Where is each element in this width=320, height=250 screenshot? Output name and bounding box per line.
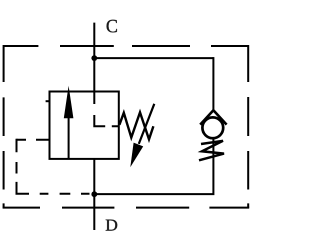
adjustment arrow shaft (139, 104, 155, 144)
pilot dashed line inside valve (from top port to spring side) (94, 92, 119, 126)
wire below valve to bottom node (93, 159, 95, 194)
enclosure dashed boundary top (3, 45, 248, 47)
adjustable spring zigzag (119, 112, 153, 139)
check valve ball (202, 117, 223, 138)
enclosure dashed boundary left (3, 45, 5, 208)
adjustment arrow head (130, 143, 143, 168)
pilot dashed line bottom branch (16, 193, 90, 195)
enclosure dashed boundary right (247, 45, 249, 208)
check valve spring (199, 141, 224, 161)
node junction dot bottom (91, 191, 97, 197)
port D label (106, 220, 118, 231)
wire port D stub (93, 194, 95, 230)
check valve upper wire (212, 57, 214, 111)
flow arrow inside valve (64, 86, 74, 159)
pilot dashed line left branch horizontal (17, 139, 50, 141)
port C label (107, 20, 117, 33)
check valve lower wire to bottom node (94, 138, 213, 194)
enclosure dashed boundary bottom (3, 207, 250, 209)
left edge tick (46, 100, 50, 102)
node junction dot top (91, 55, 97, 61)
pilot dashed line left branch vertical (16, 139, 18, 194)
wire port C stub (93, 23, 95, 92)
valve envelope (counterbalance valve body) (50, 92, 119, 159)
wire top horizontal to check valve (94, 57, 213, 59)
check valve seat (200, 110, 226, 124)
